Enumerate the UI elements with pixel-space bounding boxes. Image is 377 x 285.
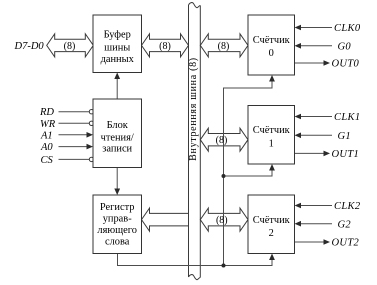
svg-text:(8): (8): [218, 41, 230, 52]
svg-text:Счётчик: Счётчик: [253, 125, 291, 136]
svg-text:(8): (8): [159, 41, 171, 52]
svg-text:WR: WR: [40, 119, 56, 130]
svg-text:Счётчик: Счётчик: [253, 215, 291, 226]
svg-text:чтения/: чтения/: [101, 133, 134, 144]
svg-text:CLK2: CLK2: [334, 201, 361, 212]
svg-text:Регистр: Регистр: [100, 202, 135, 213]
svg-text:слова: слова: [105, 236, 130, 247]
svg-text:1: 1: [269, 139, 274, 150]
svg-text:Счётчик: Счётчик: [253, 35, 291, 46]
svg-text:CLK0: CLK0: [334, 23, 361, 34]
svg-text:(8): (8): [216, 215, 228, 226]
svg-text:G0: G0: [338, 41, 352, 52]
svg-text:Буфер: Буфер: [104, 29, 131, 40]
svg-text:RD: RD: [39, 107, 54, 118]
svg-text:CLK1: CLK1: [334, 112, 361, 123]
svg-text:Блок: Блок: [107, 120, 129, 131]
svg-text:ляющего: ляющего: [97, 225, 137, 236]
svg-text:G2: G2: [338, 219, 352, 230]
svg-text:A0: A0: [40, 142, 53, 153]
svg-text:записи: записи: [102, 144, 132, 155]
svg-text:(8): (8): [64, 41, 76, 52]
svg-text:0: 0: [269, 48, 274, 59]
svg-text:OUT0: OUT0: [332, 59, 360, 70]
svg-text:(8): (8): [216, 135, 228, 146]
svg-text:A1: A1: [40, 130, 53, 141]
svg-text:OUT1: OUT1: [332, 149, 360, 160]
svg-text:шины: шины: [104, 42, 130, 53]
svg-text:OUT2: OUT2: [332, 238, 360, 249]
svg-text:данных: данных: [101, 54, 135, 65]
svg-text:2: 2: [269, 228, 274, 239]
svg-text:D7-D0: D7-D0: [14, 41, 45, 52]
svg-text:управ-: управ-: [103, 213, 132, 224]
svg-text:G1: G1: [338, 131, 352, 142]
svg-text:CS: CS: [41, 155, 54, 166]
svg-text:Внутренняя шина (8): Внутренняя шина (8): [188, 57, 199, 161]
